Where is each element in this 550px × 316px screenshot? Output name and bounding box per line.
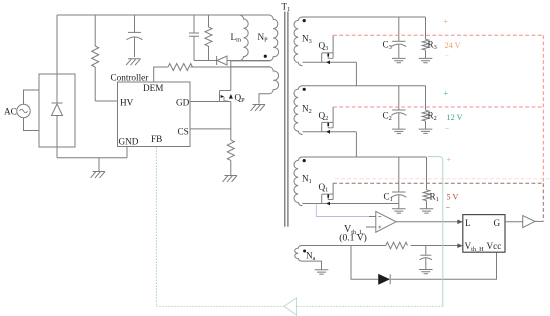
svg-text:N2: N2 bbox=[302, 104, 312, 116]
svg-text:N1: N1 bbox=[302, 174, 312, 186]
svg-text:N3: N3 bbox=[302, 34, 312, 46]
wire opamp output to L pin bbox=[396, 221, 458, 223]
ground (chassis) primary main bbox=[91, 172, 106, 178]
wire opamp minus input bbox=[369, 216, 376, 218]
resistor R-th horizontal bbox=[386, 242, 408, 249]
svg-text:Vth_H: Vth_H bbox=[465, 241, 485, 253]
resistor R3 bbox=[422, 17, 429, 58]
capacitor C-in bbox=[127, 15, 143, 57]
node dot N1 bbox=[303, 159, 306, 162]
winding N1 bbox=[294, 157, 303, 206]
svg-text:FB: FB bbox=[151, 134, 162, 144]
arrowhead into L bbox=[457, 220, 463, 225]
wire Rth to block bbox=[411, 245, 458, 247]
wire N1 bottom / Q1 channel bbox=[303, 203, 399, 205]
Q3 gate arrow bbox=[327, 53, 329, 56]
resistor R-HV bbox=[92, 15, 99, 101]
Q1 body arrow bbox=[326, 202, 330, 206]
svg-text:Controller: Controller bbox=[111, 73, 149, 83]
wire Q3 source drop to 12V rail bbox=[355, 62, 357, 85]
controller U-ctrl box bbox=[118, 82, 191, 147]
svg-text:GD: GD bbox=[176, 98, 190, 108]
bridge diode D-br bbox=[52, 74, 63, 147]
ground (chassis) under C-in bbox=[126, 59, 141, 65]
svg-text:+: + bbox=[444, 17, 449, 26]
wire Qp source to CS bbox=[190, 102, 231, 129]
block U-LG bbox=[463, 215, 505, 253]
svg-text:24 V: 24 V bbox=[445, 41, 461, 50]
wire N2 bottom / Q2 channel bbox=[303, 131, 357, 133]
ground under C3 bbox=[392, 58, 406, 62]
winding N-dem aux primary bbox=[231, 67, 279, 104]
svg-text:R2: R2 bbox=[428, 111, 437, 123]
node dot N2 bbox=[303, 88, 306, 91]
dashed gate line 5V faint bbox=[335, 178, 550, 180]
svg-text:+: + bbox=[447, 155, 452, 164]
Qp body diode arrow bbox=[229, 94, 233, 99]
transistor Q3 bbox=[322, 35, 333, 62]
wire N3 bottom / Q3 channel bbox=[303, 61, 357, 63]
transistor Q1 bbox=[322, 183, 333, 203]
teal feedback line bbox=[156, 147, 442, 307]
svg-text:Q3: Q3 bbox=[319, 41, 329, 53]
winding Na aux bbox=[295, 245, 303, 261]
wire Q2 source drop to 5V rail bbox=[355, 132, 357, 157]
Q1 gate arrow bbox=[327, 195, 329, 198]
ground under C1 bbox=[392, 209, 406, 213]
bridge rectifier box bbox=[39, 74, 75, 147]
wire rail 5V bbox=[303, 156, 427, 158]
wire blue sense bbox=[316, 204, 369, 217]
svg-text:−: − bbox=[446, 203, 451, 212]
Q2 body arrow bbox=[326, 130, 330, 134]
Qp gate arrow bbox=[221, 95, 225, 98]
ground under R3 bbox=[419, 58, 433, 62]
Q2 gate arrow bbox=[327, 123, 329, 126]
inductor Lm bbox=[240, 15, 248, 61]
svg-text:Lm: Lm bbox=[231, 32, 242, 44]
svg-text:Q1: Q1 bbox=[319, 182, 329, 194]
winding N2 bbox=[294, 86, 302, 135]
svg-text:C1: C1 bbox=[384, 192, 393, 204]
ground under C2 bbox=[392, 129, 406, 133]
diode D-clamp bbox=[217, 56, 270, 65]
svg-text:R3: R3 bbox=[428, 40, 437, 52]
capacitor C-th bbox=[420, 246, 432, 270]
svg-text:−: − bbox=[445, 124, 450, 133]
wire DEM stub bbox=[154, 67, 168, 82]
winding Np primary bbox=[231, 15, 279, 61]
svg-text:C3: C3 bbox=[383, 40, 392, 52]
wire DEM to aux winding bbox=[191, 66, 270, 68]
ground under Na bbox=[315, 270, 329, 274]
svg-text:L: L bbox=[465, 218, 471, 228]
svg-text:Na: Na bbox=[306, 251, 316, 263]
wire GND net bbox=[57, 147, 127, 172]
wire Vcc loop bbox=[351, 246, 497, 280]
svg-text:−: − bbox=[445, 51, 450, 60]
wire buffer out bbox=[535, 220, 543, 222]
arrowhead into Vth-H bbox=[457, 243, 463, 248]
dashed vertical gate bus lower bbox=[542, 183, 544, 221]
svg-text:Q2: Q2 bbox=[319, 111, 329, 123]
resistor R2 bbox=[422, 86, 429, 129]
transistor Q2 bbox=[322, 107, 333, 132]
op-amp U-cmp bbox=[376, 211, 396, 232]
capacitor C2 bbox=[391, 86, 406, 129]
AC source V1 bbox=[17, 104, 30, 117]
svg-text:C2: C2 bbox=[383, 111, 392, 123]
node dot N3 bbox=[303, 19, 306, 22]
diode D-a bbox=[378, 274, 390, 285]
wire G output bbox=[505, 221, 523, 223]
svg-text:QP: QP bbox=[235, 93, 246, 105]
node dot Np bbox=[264, 55, 267, 58]
ground (chassis) under N-dem bbox=[251, 105, 266, 111]
svg-text:Vcc: Vcc bbox=[487, 241, 502, 251]
capacitor C-sn snubber bbox=[189, 15, 199, 61]
wire Na top rail bbox=[303, 245, 386, 247]
svg-text:AC: AC bbox=[4, 107, 17, 117]
wire rail 24V bbox=[303, 16, 426, 18]
svg-text:(0.1 V): (0.1 V) bbox=[339, 233, 367, 244]
svg-text:T1: T1 bbox=[282, 2, 291, 14]
ground under R2 bbox=[419, 129, 433, 133]
resistor R1 bbox=[423, 157, 430, 209]
ground (chassis) under R-CS bbox=[223, 176, 238, 182]
dashed vertical gate bus upper bbox=[542, 35, 544, 183]
winding N3 bbox=[294, 17, 303, 66]
wire snubber bottom bbox=[194, 60, 217, 62]
dashed gate line 24V bbox=[333, 34, 543, 36]
wire drain node vertical bbox=[230, 61, 232, 91]
buffer B1 bbox=[523, 216, 535, 228]
wire rail 12V bbox=[303, 85, 426, 87]
capacitor C3 bbox=[391, 17, 406, 58]
transistor Qp bbox=[220, 91, 231, 102]
wire HV bbox=[95, 100, 117, 102]
transformer T1 core bbox=[285, 12, 288, 227]
svg-text:NP: NP bbox=[258, 32, 269, 44]
wire bridge top lead bbox=[56, 15, 58, 74]
node dot Na bbox=[303, 250, 306, 253]
svg-text:G: G bbox=[494, 218, 501, 228]
resistor R-CS bbox=[227, 129, 234, 176]
wire top rail bbox=[57, 14, 270, 16]
svg-text:+: + bbox=[444, 89, 449, 98]
capacitor C1 bbox=[391, 157, 406, 209]
svg-text:5 V: 5 V bbox=[447, 193, 459, 202]
resistor R-DEM bbox=[168, 64, 193, 71]
buffer B-fb teal triangle bbox=[284, 298, 297, 316]
resistor R-sn snubber bbox=[205, 15, 212, 61]
dashed gate line 5V dark bbox=[333, 182, 543, 184]
ground under C-th bbox=[419, 270, 433, 274]
wire opamp plus input bbox=[366, 226, 376, 228]
svg-text:DEM: DEM bbox=[143, 83, 163, 93]
svg-text:12 V: 12 V bbox=[447, 113, 463, 122]
wire Na bottom to ground bbox=[303, 261, 322, 270]
svg-text:CS: CS bbox=[178, 127, 189, 137]
dashed gate line 12V bbox=[333, 106, 543, 108]
ground under R1 bbox=[420, 209, 434, 213]
svg-text:R1: R1 bbox=[430, 192, 439, 204]
wire AC to bridge bbox=[24, 90, 40, 131]
wire GD bbox=[190, 101, 220, 103]
svg-text:HV: HV bbox=[120, 98, 134, 108]
svg-text:GND: GND bbox=[119, 137, 139, 147]
Q3 body arrow bbox=[326, 60, 330, 64]
